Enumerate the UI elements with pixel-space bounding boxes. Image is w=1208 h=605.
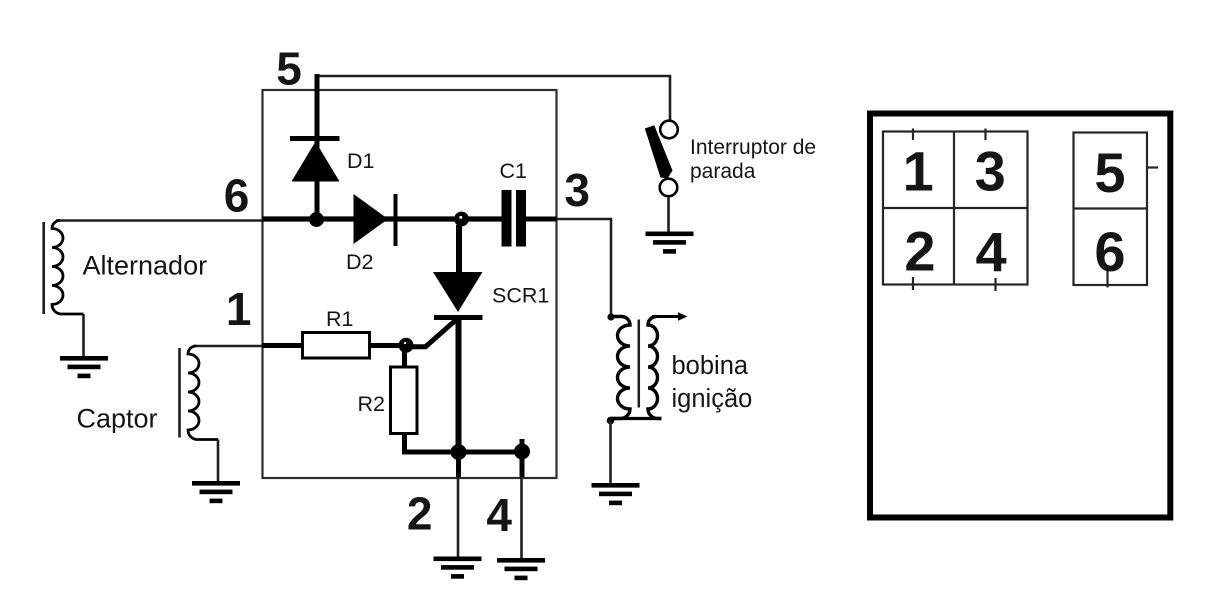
ignition coil primary winding <box>611 317 631 419</box>
svg-text:R1: R1 <box>326 307 353 331</box>
svg-text:3: 3 <box>564 164 590 216</box>
connector tick bottom col2 <box>994 278 996 291</box>
thyristor SCR1 <box>433 225 483 452</box>
wire alternator to box (node 6) <box>56 219 262 222</box>
stop switch lever <box>645 125 673 178</box>
svg-text:6: 6 <box>224 170 250 222</box>
wire pin 5 vertical lead <box>315 74 320 219</box>
wire pin1 to R1 <box>262 343 303 348</box>
wire captor to ground <box>217 440 220 482</box>
ground captor <box>192 481 240 503</box>
wire captor to box (node 1) <box>194 345 262 348</box>
wire switch to ground <box>667 197 670 232</box>
wire coil to ground <box>609 421 612 484</box>
junction node D2/C1/SCR <box>454 212 469 227</box>
ground pin4 <box>497 558 545 580</box>
junction node SCR cathode / pin2 <box>451 444 467 460</box>
captor winding <box>188 346 218 440</box>
svg-text:Alternador: Alternador <box>83 251 208 281</box>
junction node pin4 <box>514 444 530 460</box>
diode D1 <box>290 139 340 182</box>
connector 2x2 grid <box>883 132 1028 285</box>
svg-text:5: 5 <box>1094 141 1125 204</box>
svg-text:C1: C1 <box>500 159 527 183</box>
wire pin4 to ground <box>520 477 523 558</box>
svg-text:ignição: ignição <box>672 385 753 413</box>
svg-text:1: 1 <box>903 140 934 203</box>
ignition coil top node <box>607 313 614 320</box>
svg-text:5: 5 <box>276 43 302 95</box>
capacitor C1 <box>502 190 557 247</box>
connector 5/6 box <box>1074 133 1148 286</box>
connector tick bottom col1 <box>912 277 914 290</box>
label Interruptor de parada <box>690 136 816 183</box>
wire R2 top lead <box>402 351 407 368</box>
svg-text:SCR1: SCR1 <box>492 284 549 308</box>
wire pin4 lead <box>520 452 525 478</box>
wire R1 to gate node <box>370 343 403 348</box>
connector tick bottom of 6 <box>1106 271 1108 288</box>
svg-text:1: 1 <box>226 283 252 335</box>
junction node R1/R2/gate <box>399 338 414 353</box>
stop switch top contact <box>660 121 678 139</box>
connector outer box <box>870 114 1170 518</box>
resistor R1 <box>303 333 370 359</box>
svg-text:D2: D2 <box>346 250 373 274</box>
connector tick right of 5 <box>1148 166 1159 168</box>
svg-text:4: 4 <box>976 221 1007 284</box>
svg-text:parada: parada <box>690 160 756 183</box>
svg-text:bobina: bobina <box>672 352 749 380</box>
junction node D1/bus <box>309 212 324 227</box>
wire alternator to ground <box>82 314 85 356</box>
wire SCR1 gate <box>406 317 459 347</box>
svg-text:Captor: Captor <box>77 404 158 434</box>
ignition coil bottom wire <box>611 417 662 420</box>
ignition coil HT output arrow <box>652 312 688 320</box>
wire pin5 to stop switch (top) <box>317 76 670 121</box>
ground ignition coil <box>592 483 640 505</box>
wire node6 bus <box>262 216 502 221</box>
ignition coil bottom node <box>607 417 615 425</box>
svg-text:6: 6 <box>1094 220 1125 283</box>
svg-text:Interruptor de: Interruptor de <box>690 136 816 159</box>
captor core line <box>178 348 181 438</box>
connector tick top col2 <box>984 129 986 141</box>
ground pin2 <box>434 557 482 579</box>
CDI module box <box>263 90 557 478</box>
stop switch bottom contact <box>660 179 678 197</box>
wire R2 bottom lead <box>405 434 523 453</box>
wire pin2 to ground <box>457 477 460 557</box>
svg-text:2: 2 <box>407 488 433 540</box>
wire stub above pin4 node <box>520 439 525 452</box>
ground alternator <box>60 356 108 378</box>
alternator winding <box>52 221 84 315</box>
connector tick top col1 <box>912 129 914 141</box>
wire pin3 to ignition coil <box>557 219 612 317</box>
ignition coil secondary winding <box>648 317 662 419</box>
ignition coil core <box>638 320 641 408</box>
svg-text:2: 2 <box>904 220 935 283</box>
wire pin2 lead <box>456 452 461 477</box>
ground stop switch <box>646 232 694 254</box>
resistor R2 <box>391 367 418 434</box>
diode D2 <box>354 194 396 246</box>
svg-text:4: 4 <box>486 489 512 541</box>
svg-text:D1: D1 <box>347 149 374 173</box>
svg-text:R2: R2 <box>358 392 385 416</box>
svg-text:3: 3 <box>975 140 1006 203</box>
label bobina ignição <box>672 352 753 413</box>
alternator core line <box>42 222 45 314</box>
